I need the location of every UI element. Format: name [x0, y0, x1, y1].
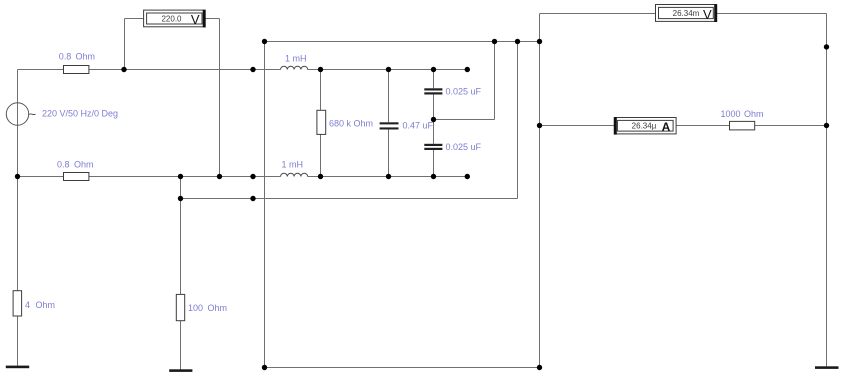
wire 0.47uF top lead [388, 70, 390, 123]
node shield rail 100 Ohm tap [178, 196, 183, 201]
inductor L2 1 mH (bottom) [281, 173, 308, 176]
wire bottom rail left of R2 [18, 176, 64, 178]
node outer rail x494.5 [492, 39, 497, 44]
wire 680k bottom lead [320, 134, 322, 176]
node bottom rail end [465, 174, 470, 179]
node right column y46.9 [824, 44, 829, 49]
wire 100 Ohm column upper [180, 177, 182, 295]
wire source column lower to ground [17, 316, 19, 366]
wire mid node horizontal y119.8 [434, 119, 495, 121]
wire bottom shield rail y367 [265, 367, 540, 369]
value label 220 V/50 Hz/0 Deg [42, 109, 118, 119]
capacitor C2 0.025 uF (upper) [424, 88, 442, 94]
node mid capacitor junction [431, 117, 436, 122]
svg-text:0.8: 0.8 [59, 52, 72, 62]
value label 680 k Ohm [329, 119, 373, 129]
wire voltmeter V1 left lead horizontal [125, 18, 144, 20]
wire 0.025uF upper lead [433, 70, 435, 89]
svg-text:V: V [703, 7, 712, 22]
wire vertical x517.3 [517, 42, 519, 199]
value label 1000 Ohm [721, 109, 764, 119]
value label 0.025 uF (lower) [446, 142, 482, 152]
node bottom rail 100 Ohm tap [178, 174, 183, 179]
node bottom rail 680k tap [318, 174, 323, 179]
svg-text:Ohm: Ohm [208, 303, 228, 313]
node top rail 0.025uF tap [431, 67, 436, 72]
svg-text:A: A [662, 120, 671, 134]
wire 0.47uF bottom lead [388, 130, 390, 177]
resistor R6 100 Ohm [176, 294, 184, 320]
node right column ammeter tap [824, 123, 829, 128]
voltmeter U2 26.34m V [656, 4, 718, 22]
resistor R3 680 k Ohm [317, 110, 326, 134]
svg-text:100: 100 [188, 303, 203, 313]
value label 0.8 Ohm (top) [59, 52, 95, 62]
wire voltmeter V1 right lead vertical [219, 19, 221, 177]
capacitor C1 0.47 uF [380, 122, 399, 129]
svg-text:1 mH: 1 mH [282, 160, 304, 170]
wire 100 Ohm column lower to ground [180, 321, 182, 370]
svg-text:Ohm: Ohm [744, 109, 764, 119]
wire vertical x494.5 [494, 42, 496, 120]
value label 0.025 uF (upper) [446, 87, 482, 97]
value label 0.47 uF [403, 121, 434, 131]
resistor R4 1000 Ohm [730, 121, 755, 129]
wire ammeter to 1000 Ohm [677, 125, 730, 127]
node bottom rail V1 tap [217, 174, 222, 179]
svg-text:26.34µ: 26.34µ [632, 121, 657, 130]
wire top rail L1 to end node [308, 69, 468, 71]
node top rail 680k tap [318, 67, 323, 72]
node top rail / V1 tap [121, 67, 126, 72]
value label 1 mH (top) [285, 54, 307, 64]
node bottom shield rail right [537, 365, 542, 370]
value label 0.8 Ohm (bottom) [57, 160, 94, 170]
svg-text:220.0: 220.0 [161, 14, 182, 23]
wire voltmeter V2 left lead [540, 13, 656, 15]
ground (100 Ohm) [169, 369, 192, 372]
node outer rail x264 [262, 39, 267, 44]
wire voltmeter V1 left lead vertical [124, 19, 126, 70]
node outer rail x517.3 [515, 39, 520, 44]
node shield rail x253 [250, 196, 255, 201]
ammeter U3 26.34u A [614, 117, 676, 134]
ac source V 220 V/50 Hz/0 Deg [6, 103, 36, 125]
node bottom rail source corner [15, 174, 20, 179]
svg-text:1 mH: 1 mH [285, 54, 307, 64]
resistor R1 0.8 Ohm (top) [64, 66, 89, 74]
node top rail end [465, 67, 470, 72]
wire top-left rail left of R1 [18, 69, 64, 71]
node bottom rail 0.025uF tap [431, 174, 436, 179]
svg-text:0.025 uF: 0.025 uF [446, 142, 482, 152]
svg-text:Ohm: Ohm [36, 300, 56, 310]
ground (source / 4 Ohm) [6, 366, 29, 369]
svg-text:~: ~ [29, 107, 37, 122]
wire outer top rail y41.5 [265, 41, 540, 43]
resistor R5 4 Ohm [13, 291, 22, 316]
wire vertical x264 [264, 42, 266, 368]
wire top-left rail R1 to inductor L1 [89, 69, 281, 71]
node bottom shield rail left [262, 365, 267, 370]
svg-text:4: 4 [25, 300, 30, 310]
wire right column x826.5 [826, 14, 828, 367]
wire source column upper [17, 70, 19, 291]
wire 0.025uF middle link [433, 95, 435, 144]
value label 4 Ohm [25, 300, 55, 310]
wire voltmeter V1 right lead horizontal [206, 18, 220, 20]
resistor R2 0.8 Ohm (bottom) [64, 173, 89, 181]
ground (right column) [815, 366, 839, 369]
wire 680k top lead [320, 70, 322, 111]
wire bottom rail L2 to end node [308, 176, 468, 178]
capacitor C3 0.025 uF (lower) [424, 144, 442, 150]
node top rail x253 [250, 67, 255, 72]
svg-text:Ohm: Ohm [76, 52, 96, 62]
wire 1000 Ohm to right column [755, 125, 827, 127]
wire ammeter left lead [540, 125, 615, 127]
node top rail 0.47uF tap [386, 67, 391, 72]
node bottom rail 0.47uF tap [386, 174, 391, 179]
node bottom rail x253 [250, 174, 255, 179]
inductor L1 1 mH (top) [281, 66, 308, 69]
svg-text:26.34m: 26.34m [673, 9, 700, 18]
value label 1 mH (bottom) [282, 160, 304, 170]
svg-text:0.8: 0.8 [57, 160, 70, 170]
wire shield rail y198 [181, 198, 518, 200]
value label 100 Ohm [188, 303, 227, 313]
svg-text:680 k Ohm: 680 k Ohm [329, 119, 373, 129]
node ammeter rail x539.7 [537, 123, 542, 128]
wire 0.025uF lower lead [433, 150, 435, 177]
svg-text:0.025 uF: 0.025 uF [446, 87, 482, 97]
wire bottom rail R2 to inductor L2 [89, 176, 281, 178]
svg-text:220 V/50 Hz/0 Deg: 220 V/50 Hz/0 Deg [42, 109, 118, 119]
svg-text:Ohm: Ohm [74, 160, 94, 170]
svg-text:V: V [191, 12, 200, 27]
svg-text:0.47 uF: 0.47 uF [403, 121, 434, 131]
wire voltmeter V2 right lead [717, 13, 827, 15]
voltmeter U1 220.0 V [144, 10, 206, 28]
wire vertical x539.7 [539, 14, 541, 368]
node outer rail x539.7 [537, 39, 542, 44]
svg-text:1000: 1000 [721, 109, 741, 119]
